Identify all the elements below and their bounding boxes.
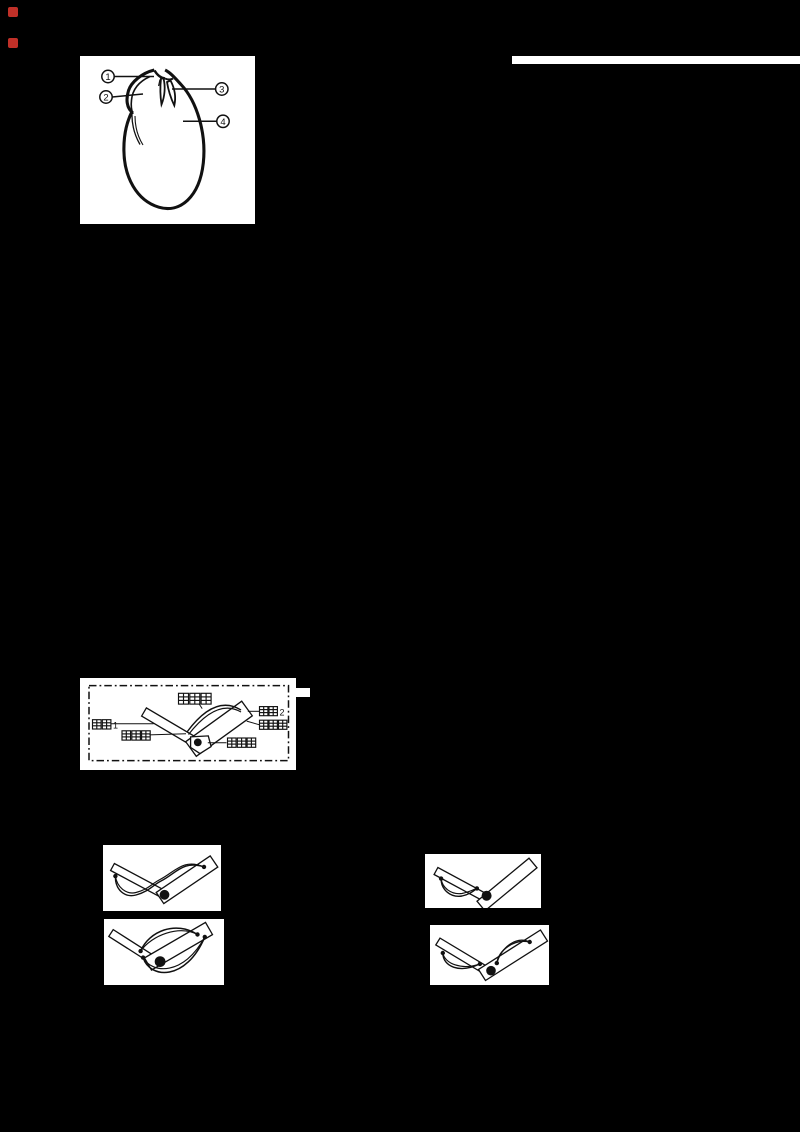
leader lines <box>111 704 260 742</box>
board right <box>145 922 213 970</box>
band bottom arcs <box>143 937 205 973</box>
right band <box>497 941 530 963</box>
dash-dot frame <box>89 686 289 761</box>
label muban1 <box>93 720 102 729</box>
elastic band arc <box>187 705 241 732</box>
label xiaoluosi left <box>122 731 131 740</box>
seed coat double lines lower left <box>132 112 140 145</box>
big screw plate <box>191 736 212 754</box>
svg-text:3: 3 <box>219 85 224 96</box>
option C box <box>104 919 224 985</box>
label muban2 <box>260 707 268 716</box>
board right <box>479 930 548 981</box>
big screw <box>486 966 496 976</box>
inner crescent cotyledon edge <box>131 77 150 115</box>
label daluosi <box>228 738 237 747</box>
label 4 <box>183 115 229 127</box>
svg-text:4: 4 <box>220 117 225 128</box>
red mark 2 <box>8 38 18 48</box>
band end dots <box>113 874 117 878</box>
label 2 <box>100 91 143 103</box>
big screw <box>155 956 166 967</box>
board left <box>109 930 156 964</box>
board left <box>111 864 167 899</box>
label songjindai <box>179 693 189 704</box>
elastic band <box>441 879 477 897</box>
board left <box>436 938 489 974</box>
option D box <box>430 925 549 985</box>
sprout top strokes <box>155 71 166 79</box>
wooden board 2 (right) <box>186 701 253 756</box>
svg-text:1: 1 <box>105 72 110 83</box>
wooden board 1 (left) <box>142 708 202 749</box>
small inner tick <box>159 80 160 87</box>
svg-text:2: 2 <box>280 707 285 717</box>
board right <box>477 858 537 911</box>
svg-text:2: 2 <box>103 93 108 104</box>
seed figure box <box>80 56 255 224</box>
nub right of apparatus box <box>296 688 310 697</box>
board left <box>434 868 488 902</box>
red mark 1 <box>8 7 18 17</box>
band top arcs <box>141 928 198 951</box>
label 1 <box>102 70 154 82</box>
board right <box>156 856 218 904</box>
big screw <box>482 891 492 901</box>
bean seed outline <box>124 70 204 209</box>
elastic band <box>115 865 204 896</box>
sprout blade 1 <box>160 79 164 105</box>
band end dots <box>441 951 445 955</box>
apparatus figure box <box>80 678 296 770</box>
option B box <box>425 854 541 908</box>
svg-text:1: 1 <box>113 721 118 731</box>
label xiaoluosi right <box>260 720 268 729</box>
band end dots <box>138 949 142 953</box>
white strip top right <box>512 56 800 64</box>
big screw <box>160 890 170 900</box>
left band <box>443 953 480 968</box>
option A box <box>103 845 221 911</box>
big screw dot <box>194 739 202 747</box>
sprout blade 2 <box>167 81 175 106</box>
label 3 <box>172 83 228 95</box>
band end dots <box>439 876 443 880</box>
